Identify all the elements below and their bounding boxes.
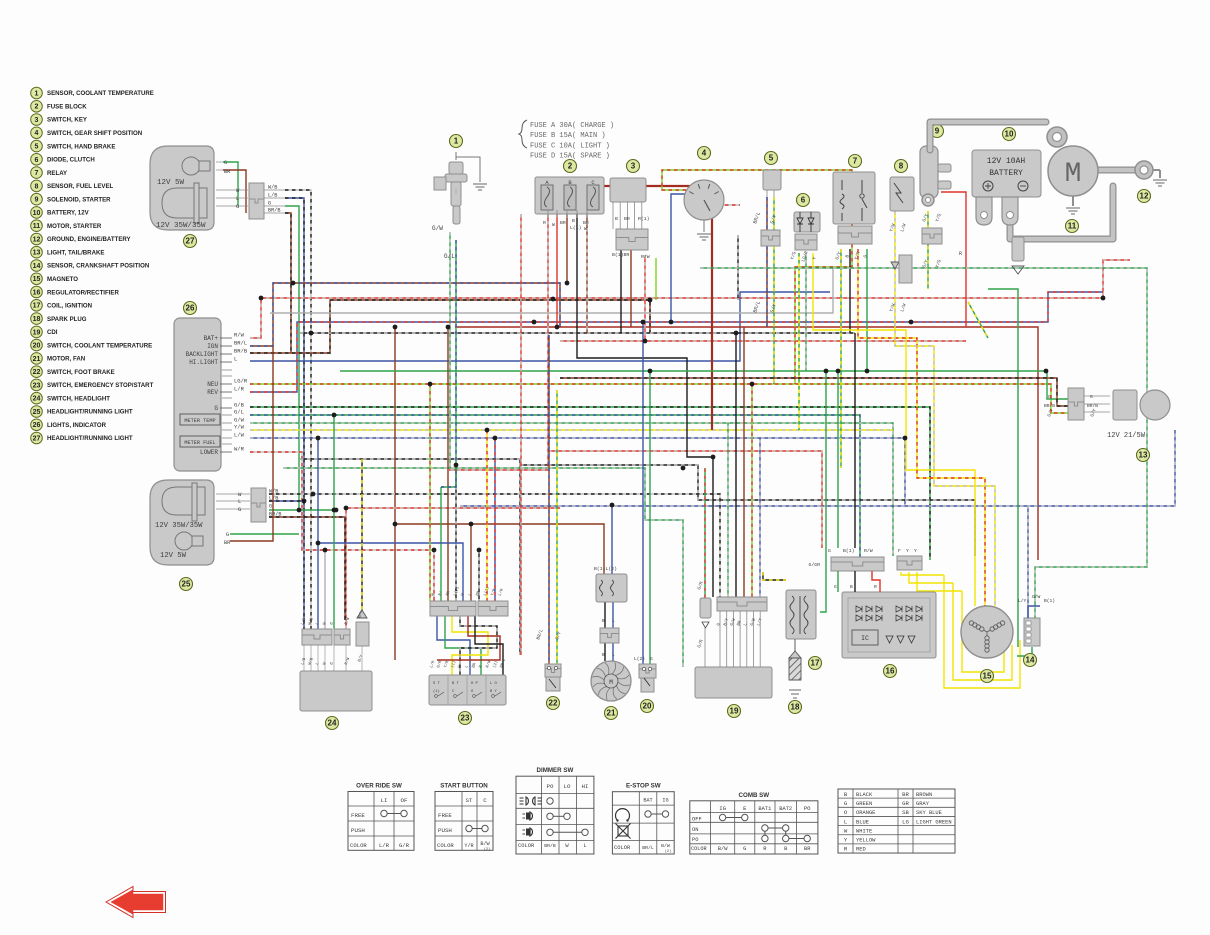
svg-text:L: L	[236, 195, 239, 202]
svg-text:5: 5	[35, 143, 39, 150]
svg-text:1: 1	[454, 137, 459, 146]
svg-text:L(2): L(2)	[634, 656, 645, 662]
svg-text:L(1): L(1)	[570, 225, 582, 231]
svg-text:23: 23	[33, 382, 41, 389]
svg-text:BATTERY: BATTERY	[989, 169, 1023, 178]
svg-text:B(1)BR: B(1)BR	[612, 252, 629, 258]
svg-text:M: M	[609, 679, 613, 686]
svg-text:START BUTTON: START BUTTON	[440, 783, 488, 790]
svg-text:R: R	[874, 584, 877, 590]
svg-text:PUSH: PUSH	[351, 827, 365, 834]
svg-text:SWITCH, FOOT BRAKE: SWITCH, FOOT BRAKE	[47, 369, 115, 376]
svg-text:BR/B: BR/B	[269, 512, 281, 518]
svg-text:FREE: FREE	[438, 812, 452, 819]
svg-text:G/L: G/L	[444, 253, 455, 260]
svg-text:9: 9	[935, 127, 940, 136]
svg-text:G: G	[214, 405, 218, 412]
svg-text:S T: S T	[433, 682, 441, 686]
svg-text:OVER RIDE SW: OVER RIDE SW	[356, 783, 402, 790]
svg-text:HI: HI	[582, 783, 589, 790]
svg-text:(2): (2)	[665, 849, 671, 854]
svg-text:L/R: L/R	[379, 842, 390, 849]
svg-text:L/R: L/R	[234, 386, 245, 393]
svg-text:W/B: W/B	[269, 489, 278, 495]
svg-text:WHITE: WHITE	[856, 828, 872, 834]
svg-text:G: G	[236, 203, 239, 210]
svg-text:L O: L O	[490, 682, 498, 686]
svg-text:BAT+: BAT+	[204, 335, 219, 342]
svg-text:M: M	[1065, 159, 1082, 190]
svg-text:OF: OF	[401, 797, 408, 804]
svg-text:6: 6	[35, 157, 39, 164]
svg-text:SWITCH, HAND BRAKE: SWITCH, HAND BRAKE	[47, 143, 115, 150]
svg-text:L: L	[612, 618, 615, 624]
svg-text:L: L	[234, 356, 237, 363]
svg-text:27: 27	[33, 435, 41, 442]
svg-text:DIODE, CLUTCH: DIODE, CLUTCH	[47, 157, 95, 164]
svg-text:BLUE: BLUE	[856, 819, 869, 825]
svg-text:G: G	[743, 846, 746, 852]
svg-text:12: 12	[1140, 192, 1149, 201]
svg-text:21: 21	[33, 356, 41, 363]
svg-text:BR: BR	[224, 540, 230, 546]
svg-text:L: L	[844, 818, 847, 825]
svg-text:2: 2	[568, 162, 573, 171]
svg-text:BAT1: BAT1	[758, 806, 771, 812]
svg-text:GRAY: GRAY	[916, 801, 930, 807]
svg-text:B(1): B(1)	[1044, 598, 1055, 604]
svg-text:12: 12	[33, 236, 41, 243]
svg-text:24: 24	[328, 719, 337, 728]
svg-text:4: 4	[35, 130, 39, 137]
svg-text:G/B: G/B	[234, 402, 245, 409]
svg-text:G: G	[834, 584, 837, 590]
svg-text:LO: LO	[564, 783, 571, 790]
svg-text:16: 16	[33, 289, 41, 296]
svg-text:GROUND, ENGINE/BATTERY: GROUND, ENGINE/BATTERY	[47, 236, 131, 243]
svg-text:LOWER: LOWER	[200, 449, 218, 456]
svg-text:PUSH: PUSH	[438, 827, 452, 834]
svg-text:NEU: NEU	[207, 381, 218, 388]
svg-text:MOTOR, STARTER: MOTOR, STARTER	[47, 223, 102, 230]
svg-text:IG: IG	[662, 798, 668, 804]
svg-text:G/W: G/W	[1032, 594, 1041, 600]
svg-text:G: G	[650, 656, 653, 662]
svg-text:19: 19	[730, 707, 739, 716]
svg-text:BR: BR	[583, 220, 589, 226]
svg-text:12V 21/5W: 12V 21/5W	[1107, 432, 1146, 440]
svg-text:4: 4	[702, 149, 707, 158]
svg-text:20: 20	[643, 702, 652, 711]
svg-text:W: W	[552, 222, 555, 228]
svg-text:BATTERY, 12V: BATTERY, 12V	[47, 210, 90, 217]
svg-text:22: 22	[549, 699, 558, 708]
svg-text:COLOR: COLOR	[691, 846, 707, 852]
svg-text:BAT2: BAT2	[779, 806, 792, 812]
svg-text:B: B	[602, 652, 605, 658]
svg-text:E-STOP SW: E-STOP SW	[626, 783, 661, 790]
svg-text:C: C	[483, 797, 487, 804]
svg-text:17: 17	[811, 659, 820, 668]
svg-text:6: 6	[801, 196, 806, 205]
svg-text:R: R	[543, 220, 546, 226]
svg-text:LIGHT, TAIL/BRAKE: LIGHT, TAIL/BRAKE	[47, 249, 104, 256]
svg-text:23: 23	[461, 714, 470, 723]
svg-text:PO: PO	[692, 837, 698, 843]
svg-text:G/W: G/W	[234, 417, 245, 424]
svg-text:14: 14	[33, 263, 41, 270]
svg-text:R/W: R/W	[234, 332, 245, 339]
svg-text:METER TEMP: METER TEMP	[184, 418, 215, 424]
svg-text:L: L	[583, 843, 586, 849]
svg-text:B: B	[615, 216, 618, 222]
svg-text:MOTOR, FAN: MOTOR, FAN	[47, 356, 85, 363]
svg-text:PO: PO	[804, 805, 811, 812]
svg-text:LG/R: LG/R	[234, 378, 248, 385]
svg-text:BR/L: BR/L	[642, 845, 654, 851]
svg-text:3: 3	[35, 117, 39, 124]
svg-text:H P: H P	[471, 682, 479, 686]
svg-text:22: 22	[33, 369, 41, 376]
svg-text:B/W: B/W	[480, 841, 490, 847]
svg-text:G/L: G/L	[234, 409, 244, 416]
svg-text:ST: ST	[466, 797, 473, 804]
svg-text:13: 13	[33, 250, 41, 257]
svg-text:IC: IC	[861, 635, 869, 642]
svg-text:FREE: FREE	[351, 812, 365, 819]
svg-text:G: G	[1048, 394, 1051, 400]
svg-text:RED: RED	[856, 847, 866, 853]
svg-text:L/Y: L/Y	[1018, 598, 1027, 604]
svg-text:B/W: B/W	[661, 843, 670, 849]
svg-text:16: 16	[886, 667, 895, 676]
svg-text:B T: B T	[452, 682, 460, 686]
svg-text:F: F	[898, 548, 901, 554]
svg-text:L: L	[238, 498, 241, 505]
svg-text:B: B	[850, 584, 853, 590]
svg-text:G/R: G/R	[399, 842, 410, 849]
svg-text:G: G	[828, 548, 831, 554]
svg-text:ORANGE: ORANGE	[856, 810, 875, 816]
svg-text:HEADLIGHT/RUNNING LIGHT: HEADLIGHT/RUNNING LIGHT	[47, 435, 133, 442]
svg-text:12V 5W: 12V 5W	[157, 179, 185, 187]
svg-text:14: 14	[1026, 656, 1035, 665]
svg-text:Y: Y	[906, 548, 909, 554]
svg-text:DIMMER SW: DIMMER SW	[537, 767, 574, 774]
svg-text:FUSE A 30A( CHARGE ): FUSE A 30A( CHARGE )	[530, 122, 614, 130]
svg-text:BR/B: BR/B	[268, 208, 280, 214]
svg-text:SPARK PLUG: SPARK PLUG	[47, 316, 87, 323]
svg-text:Y/R: Y/R	[464, 843, 473, 849]
svg-text:9: 9	[35, 197, 39, 204]
svg-text:10: 10	[33, 210, 41, 217]
svg-text:COMB SW: COMB SW	[739, 792, 770, 799]
svg-text:HEADLIGHT/RUNNING LIGHT: HEADLIGHT/RUNNING LIGHT	[47, 409, 133, 416]
svg-text:B/W: B/W	[718, 846, 728, 852]
svg-text:SWITCH, KEY: SWITCH, KEY	[47, 117, 87, 124]
svg-text:FUSE B 15A( MAIN ): FUSE B 15A( MAIN )	[530, 132, 606, 140]
svg-text:SENSOR, FUEL LEVEL: SENSOR, FUEL LEVEL	[47, 183, 114, 190]
svg-text:26: 26	[33, 422, 41, 429]
svg-text:10: 10	[1005, 130, 1014, 139]
svg-text:COLOR: COLOR	[437, 842, 454, 849]
svg-text:8: 8	[899, 162, 904, 171]
svg-text:24: 24	[33, 396, 41, 403]
svg-text:SKY BLUE: SKY BLUE	[916, 810, 942, 816]
svg-text:G: G	[224, 160, 227, 166]
svg-text:Y: Y	[914, 548, 917, 554]
svg-text:25: 25	[182, 580, 191, 589]
svg-text:G/GR: G/GR	[808, 562, 820, 568]
svg-text:FUSE BLOCK: FUSE BLOCK	[47, 103, 87, 110]
svg-text:7: 7	[35, 170, 39, 177]
svg-text:12V 35W/35W: 12V 35W/35W	[155, 522, 203, 530]
svg-text:12V 10AH: 12V 10AH	[987, 157, 1026, 166]
svg-text:20: 20	[33, 343, 41, 350]
svg-text:CDI: CDI	[47, 329, 58, 336]
svg-text:L/B: L/B	[269, 496, 278, 502]
svg-text:SENSOR, COOLANT TEMPERATURE: SENSOR, COOLANT TEMPERATURE	[47, 90, 154, 97]
svg-text:G/W: G/W	[432, 225, 443, 232]
svg-text:SENSOR, CRANKSHAFT POSITION: SENSOR, CRANKSHAFT POSITION	[47, 263, 149, 270]
svg-text:B Y: B Y	[490, 690, 498, 694]
svg-text:BR: BR	[560, 220, 566, 226]
svg-text:COLOR: COLOR	[518, 843, 535, 849]
svg-text:R/W: R/W	[864, 548, 873, 554]
svg-text:BAT: BAT	[643, 798, 652, 804]
svg-text:SB: SB	[902, 809, 909, 816]
svg-text:BR: BR	[624, 216, 630, 222]
svg-text:COIL, IGNITION: COIL, IGNITION	[47, 303, 92, 310]
svg-text:7: 7	[853, 157, 858, 166]
svg-text:SWITCH, GEAR SHIFT POSITION: SWITCH, GEAR SHIFT POSITION	[47, 130, 142, 137]
svg-text:SOLENOID, STARTER: SOLENOID, STARTER	[47, 196, 111, 203]
svg-text:BR: BR	[224, 169, 230, 175]
svg-text:18: 18	[791, 703, 800, 712]
svg-text:BR/B: BR/B	[544, 843, 556, 849]
svg-text:BACKLIGHT: BACKLIGHT	[186, 351, 219, 358]
svg-text:G: G	[268, 201, 271, 207]
svg-text:19: 19	[33, 329, 41, 336]
svg-text:W/B: W/B	[268, 185, 277, 191]
svg-text:8: 8	[35, 183, 39, 190]
svg-text:BR/L: BR/L	[234, 340, 247, 347]
svg-text:B: B	[572, 218, 575, 224]
svg-text:ON: ON	[692, 827, 698, 833]
svg-text:BLACK: BLACK	[856, 792, 873, 798]
svg-text:L: L	[612, 652, 615, 658]
svg-text:B(1)L(2): B(1)L(2)	[594, 566, 617, 572]
svg-text:COLOR: COLOR	[350, 842, 367, 849]
svg-text:COLOR: COLOR	[614, 845, 631, 851]
svg-text:L/W: L/W	[234, 432, 245, 439]
svg-text:15: 15	[33, 276, 41, 283]
svg-text:SWITCH, HEADLIGHT: SWITCH, HEADLIGHT	[47, 395, 110, 402]
svg-text:B(1): B(1)	[843, 548, 855, 554]
svg-text:BR/B: BR/B	[234, 348, 248, 355]
svg-text:Y/W: Y/W	[234, 424, 245, 431]
svg-text:FUSE C 10A( LIGHT ): FUSE C 10A( LIGHT )	[530, 142, 610, 150]
svg-text:G: G	[1090, 394, 1093, 400]
svg-text:SWITCH, EMERGENCY STOP/START: SWITCH, EMERGENCY STOP/START	[47, 382, 154, 389]
svg-text:METER FUEL: METER FUEL	[184, 440, 215, 446]
svg-text:R(1): R(1)	[638, 216, 650, 222]
svg-text:BROWN: BROWN	[916, 792, 932, 798]
svg-text:BR: BR	[902, 791, 909, 798]
svg-text:MAGNETO: MAGNETO	[47, 276, 78, 283]
svg-text:R: R	[959, 251, 962, 257]
svg-text:BR: BR	[804, 846, 811, 852]
svg-text:GREEN: GREEN	[856, 801, 872, 807]
svg-text:IGN: IGN	[207, 343, 218, 350]
svg-text:REGULATOR/RECTIFIER: REGULATOR/RECTIFIER	[47, 289, 119, 296]
svg-text:18: 18	[33, 316, 41, 323]
svg-text:B: B	[602, 618, 605, 624]
svg-text:(1): (1)	[433, 689, 440, 694]
svg-text:YELLOW: YELLOW	[856, 838, 876, 844]
svg-text:12V 5W: 12V 5W	[160, 552, 187, 560]
svg-text:L/B: L/B	[268, 193, 277, 199]
svg-text:SWITCH, COOLANT TEMPERATURE: SWITCH, COOLANT TEMPERATURE	[47, 342, 152, 349]
svg-text:17: 17	[33, 303, 41, 310]
svg-text:PO: PO	[547, 783, 554, 790]
svg-text:W/R: W/R	[234, 446, 245, 453]
svg-text:LIGHT GREEN: LIGHT GREEN	[916, 819, 952, 825]
svg-text:12V 35W/35W: 12V 35W/35W	[156, 222, 206, 230]
svg-text:25: 25	[33, 409, 41, 416]
svg-text:W: W	[584, 226, 587, 232]
svg-text:21: 21	[607, 709, 616, 718]
svg-text:LI: LI	[381, 797, 388, 804]
svg-text:LG: LG	[902, 818, 909, 825]
svg-text:27: 27	[186, 237, 195, 246]
svg-text:G: G	[238, 506, 241, 513]
svg-text:RELAY: RELAY	[47, 170, 67, 177]
svg-text:GR: GR	[902, 800, 909, 807]
svg-text:5: 5	[769, 154, 774, 163]
svg-text:HI.LIGHT: HI.LIGHT	[189, 359, 218, 366]
svg-text:(2): (2)	[484, 847, 490, 852]
svg-text:13: 13	[1139, 451, 1148, 460]
svg-text:G: G	[269, 504, 272, 510]
svg-text:2: 2	[35, 104, 39, 111]
svg-text:R/W: R/W	[641, 254, 650, 260]
svg-text:1: 1	[35, 90, 39, 97]
svg-text:15: 15	[983, 672, 992, 681]
svg-text:G: G	[226, 532, 229, 538]
svg-text:LIGHTS, INDICATOR: LIGHTS, INDICATOR	[47, 422, 107, 429]
svg-text:26: 26	[186, 304, 195, 313]
svg-text:REV: REV	[207, 389, 218, 396]
svg-text:OFF: OFF	[692, 817, 702, 823]
svg-text:11: 11	[33, 223, 41, 230]
svg-text:IG: IG	[719, 805, 726, 812]
svg-text:11: 11	[1068, 222, 1077, 231]
svg-text:3: 3	[631, 162, 636, 171]
